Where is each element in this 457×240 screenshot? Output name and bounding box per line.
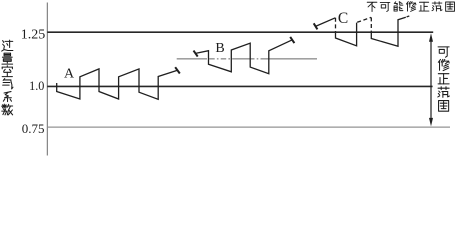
svg-text:1.0: 1.0 xyxy=(29,79,44,93)
svg-text:B: B xyxy=(215,41,224,56)
svg-text:A: A xyxy=(64,66,75,81)
svg-text:C: C xyxy=(338,10,348,27)
svg-text:1.25: 1.25 xyxy=(21,27,46,42)
svg-text:0.75: 0.75 xyxy=(22,121,45,136)
